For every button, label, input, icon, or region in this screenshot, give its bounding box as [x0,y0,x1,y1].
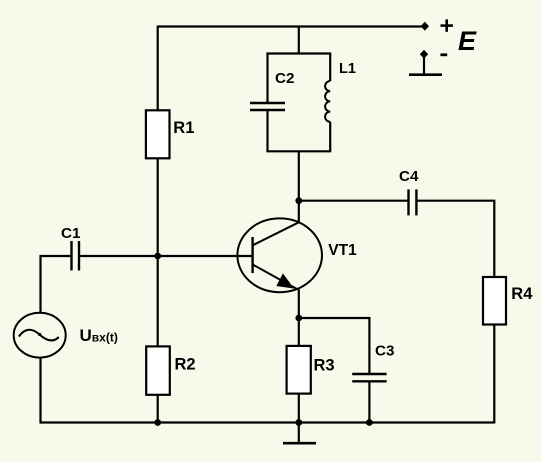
wire C4 to R4 corner [416,201,494,278]
capacitor C3 [352,374,386,381]
ground [283,423,316,444]
capacitor C2 [250,103,285,110]
wire emitter node to R3 [298,318,300,346]
wire tank right upper [329,54,331,82]
resistor R4 [483,277,506,325]
svg-text:C1: C1 [61,225,81,242]
wire tank to collector node [298,151,300,200]
node bottom-left junction dot [154,419,161,426]
resistor R2 [146,346,170,394]
wire left vertical lower (R2 to bottom rail) [157,395,159,423]
svg-text:E: E [458,26,477,56]
wire left vertical upper (top rail to R1) [157,26,159,111]
node base junction dot [154,253,161,260]
node collector junction dot [295,197,302,204]
svg-text:R2: R2 [175,356,196,374]
node minus terminal dot [420,50,428,59]
wire source branch lower [39,358,41,423]
wire tank bottom side [266,150,331,152]
svg-text:R1: R1 [173,119,194,137]
wire C1 right lead to base junction [79,255,158,257]
node C3 bottom junction dot [366,419,373,426]
ground bar of supply [409,73,442,76]
transistor VT1 [237,218,322,292]
wire source branch upper [39,255,41,314]
wire tank left upper [266,54,268,103]
svg-text:Uвх(t): Uвх(t) [80,326,118,345]
wire minus terminal to ground bar [423,54,425,74]
svg-text:VT1: VT1 [328,242,357,259]
source Uvx generator [14,313,66,358]
wire tank top side [266,52,331,54]
inductor L1 [325,81,330,122]
capacitor C4 [409,189,417,215]
wire R4 to bottom rail [493,325,495,424]
node emitter junction dot [295,315,302,322]
wire emitter node to C3 branch [299,317,370,319]
svg-text:C3: C3 [375,342,394,359]
resistor R3 [287,346,311,394]
wire tank left lower [266,111,268,152]
svg-text:R3: R3 [314,357,335,375]
wire R3 to bottom rail [298,394,300,423]
wire top rail [158,25,425,27]
node R3 bottom junction dot [295,419,302,426]
wire tank right lower [329,122,331,152]
svg-text:C4: C4 [399,168,419,185]
svg-text:C2: C2 [275,70,294,87]
wire emitter lead vertical [298,290,300,319]
wire C1 left lead [40,255,72,257]
wire collector lead vertical [298,201,300,223]
node plus terminal dot [421,22,429,31]
label plus sign [441,19,453,31]
wire base lead [158,255,252,257]
wire C3 branch lower [368,382,370,423]
wire tank top feed [298,27,300,54]
svg-text:R4: R4 [511,285,533,303]
capacitor C1 [72,241,80,271]
wire C3 branch upper [368,317,370,374]
resistor R1 [146,110,170,158]
wire collector node to C4 [299,200,409,202]
wire left vertical middle (R1 to R2) [157,158,159,346]
label minus sign [440,53,447,56]
wire bottom rail [40,421,495,423]
svg-text:L1: L1 [339,61,356,77]
